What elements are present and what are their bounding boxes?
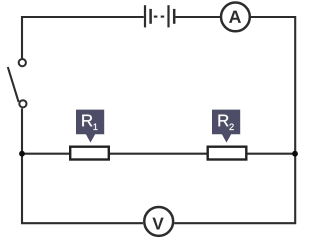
cell 2 short plate <box>173 9 176 24</box>
switch bottom terminal <box>19 100 26 107</box>
wire (middle branch) <box>22 153 295 155</box>
wire <box>176 16 221 18</box>
cell 2 long plate <box>167 5 169 27</box>
label R1 <box>76 110 104 143</box>
resistor R1 <box>70 147 109 160</box>
wire <box>174 17 295 223</box>
battery B1 <box>145 5 174 27</box>
dash <box>154 16 158 18</box>
switch blade <box>8 67 19 102</box>
dash <box>161 16 165 18</box>
voltmeter V1 <box>144 207 173 236</box>
wire <box>22 108 143 223</box>
ammeter A1 <box>221 3 250 32</box>
label R2 <box>212 110 240 143</box>
junction dot <box>19 151 25 157</box>
cell 1 long plate <box>144 5 146 27</box>
switch S1 <box>8 59 27 107</box>
junction dot <box>292 151 298 157</box>
resistor R2 <box>208 147 247 160</box>
switch top terminal <box>19 59 26 66</box>
cell 1 short plate <box>149 9 152 24</box>
wire <box>22 17 144 58</box>
